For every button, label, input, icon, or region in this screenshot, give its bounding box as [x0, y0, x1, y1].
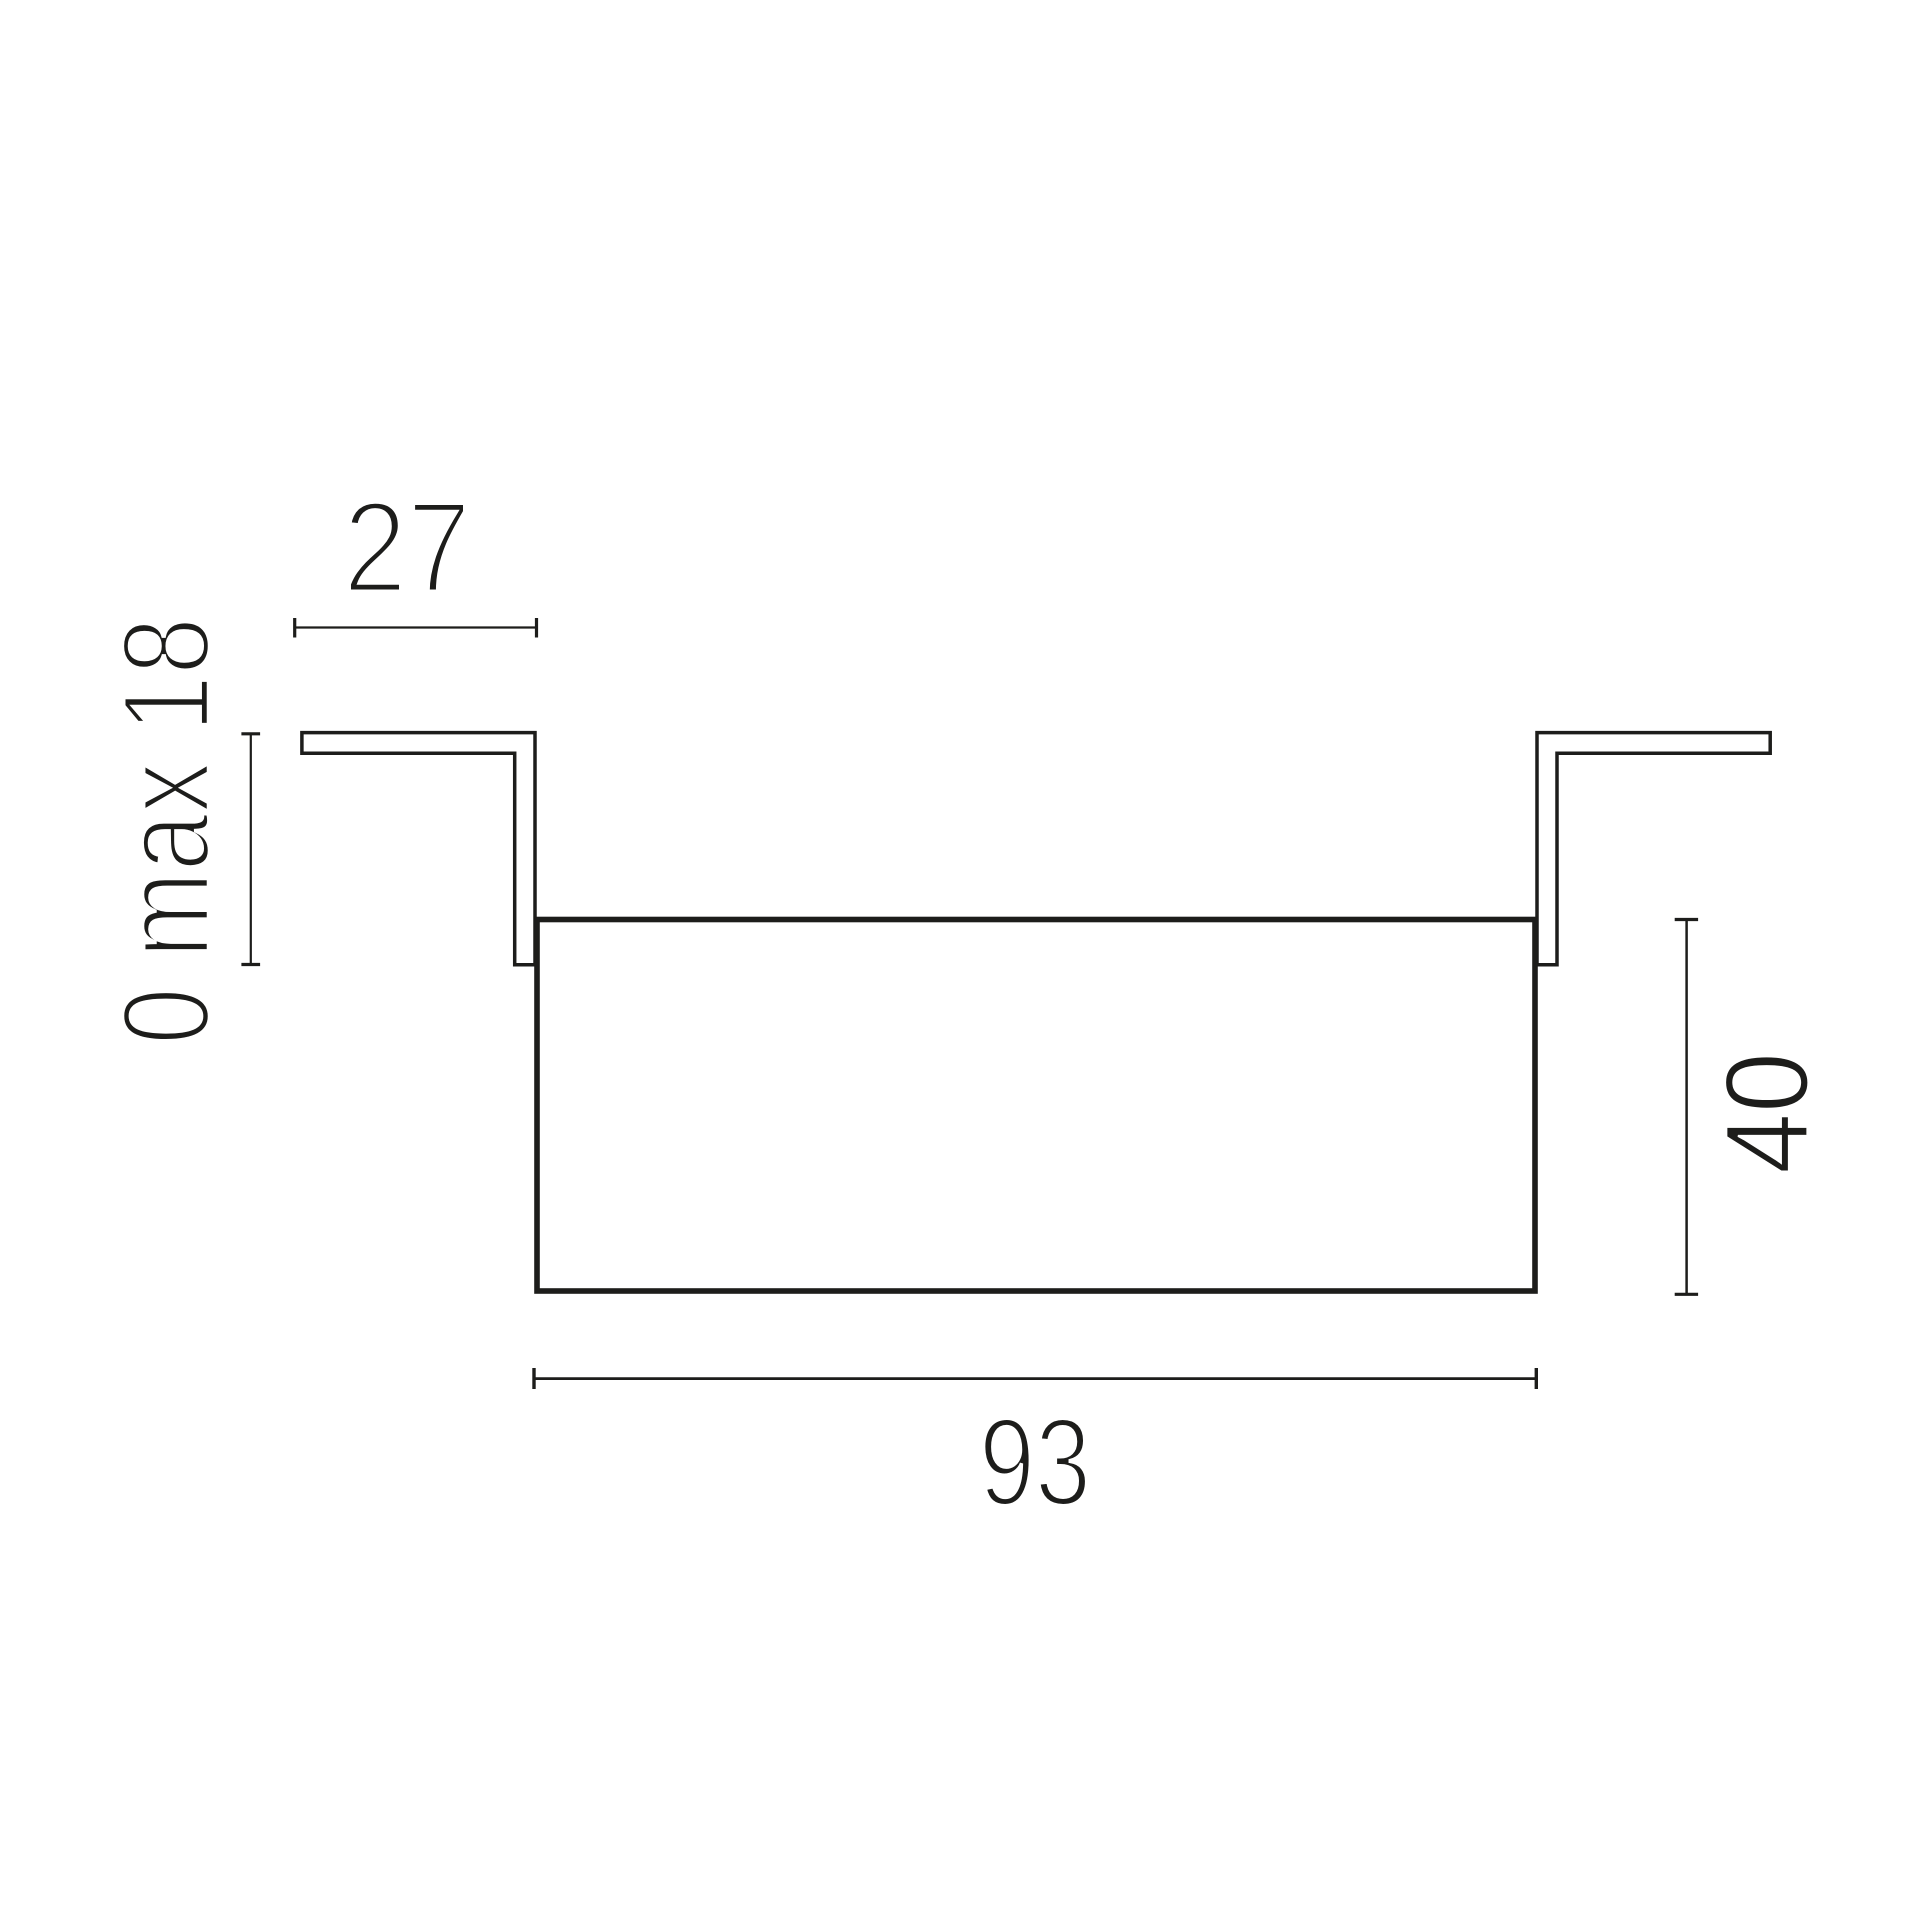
dimension 0 max 18 bottom tick	[241, 963, 260, 966]
svg-text:40: 40	[1702, 1052, 1834, 1174]
svg-text:93: 93	[979, 1394, 1091, 1532]
dimension 27 left tick	[293, 618, 296, 638]
dimension 0 max 18 top tick	[241, 732, 260, 735]
right mounting bracket (Z-profile sheet)	[1537, 733, 1770, 965]
svg-text:27: 27	[343, 474, 471, 620]
dimension 93 right tick	[1535, 1368, 1538, 1389]
dimension 40 bottom tick	[1675, 1293, 1698, 1296]
svg-text:0 max 18: 0 max 18	[98, 617, 236, 1045]
dimension 27 right tick	[535, 618, 538, 638]
dimension 93 line	[534, 1377, 1536, 1380]
main profile box	[537, 920, 1535, 1292]
dimension 27 line	[295, 626, 537, 628]
dimension 0 max 18 line	[250, 734, 252, 965]
dimension 93 left tick	[532, 1368, 535, 1389]
dimension 40 top tick	[1675, 918, 1698, 921]
left mounting bracket (Z-profile sheet)	[302, 733, 535, 965]
dimension 40 line	[1685, 920, 1688, 1295]
